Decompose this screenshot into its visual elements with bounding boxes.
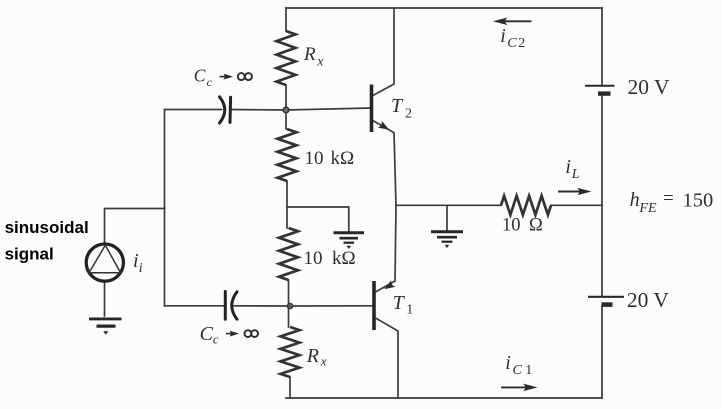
svg-text:20 V: 20 V xyxy=(628,75,670,99)
svg-text:c: c xyxy=(213,331,219,346)
svg-text:C: C xyxy=(194,66,206,86)
svg-text:sinusoidal: sinusoidal xyxy=(5,218,89,237)
svg-text:2: 2 xyxy=(518,36,525,51)
svg-text:R: R xyxy=(303,44,316,65)
svg-text:10: 10 xyxy=(305,148,324,169)
svg-text:C: C xyxy=(513,363,523,378)
svg-text:1: 1 xyxy=(525,363,532,378)
svg-text:C: C xyxy=(200,323,214,345)
svg-text:2: 2 xyxy=(405,107,412,122)
svg-text:c: c xyxy=(207,75,213,89)
svg-text:i: i xyxy=(565,156,571,178)
svg-text:150: 150 xyxy=(683,190,714,212)
svg-text:L: L xyxy=(571,167,580,182)
svg-text:10: 10 xyxy=(502,216,521,236)
svg-text:T: T xyxy=(391,95,404,117)
svg-text:R: R xyxy=(306,345,319,367)
svg-text:x: x xyxy=(320,354,327,369)
svg-text:20 V: 20 V xyxy=(627,288,669,312)
svg-text:h: h xyxy=(630,189,640,211)
svg-text:kΩ: kΩ xyxy=(332,248,356,269)
svg-text:=: = xyxy=(663,188,674,209)
svg-text:i: i xyxy=(133,250,139,272)
svg-text:x: x xyxy=(316,55,324,70)
svg-text:T: T xyxy=(393,292,406,314)
svg-text:signal: signal xyxy=(5,244,54,263)
svg-text:FE: FE xyxy=(638,201,657,216)
svg-text:i: i xyxy=(505,352,511,374)
svg-text:1: 1 xyxy=(406,303,413,318)
svg-text:Ω: Ω xyxy=(529,216,543,236)
svg-text:i: i xyxy=(139,261,143,276)
svg-text:C: C xyxy=(507,36,517,51)
svg-text:i: i xyxy=(500,25,506,47)
svg-text:kΩ: kΩ xyxy=(331,148,355,169)
svg-text:10: 10 xyxy=(304,248,323,269)
